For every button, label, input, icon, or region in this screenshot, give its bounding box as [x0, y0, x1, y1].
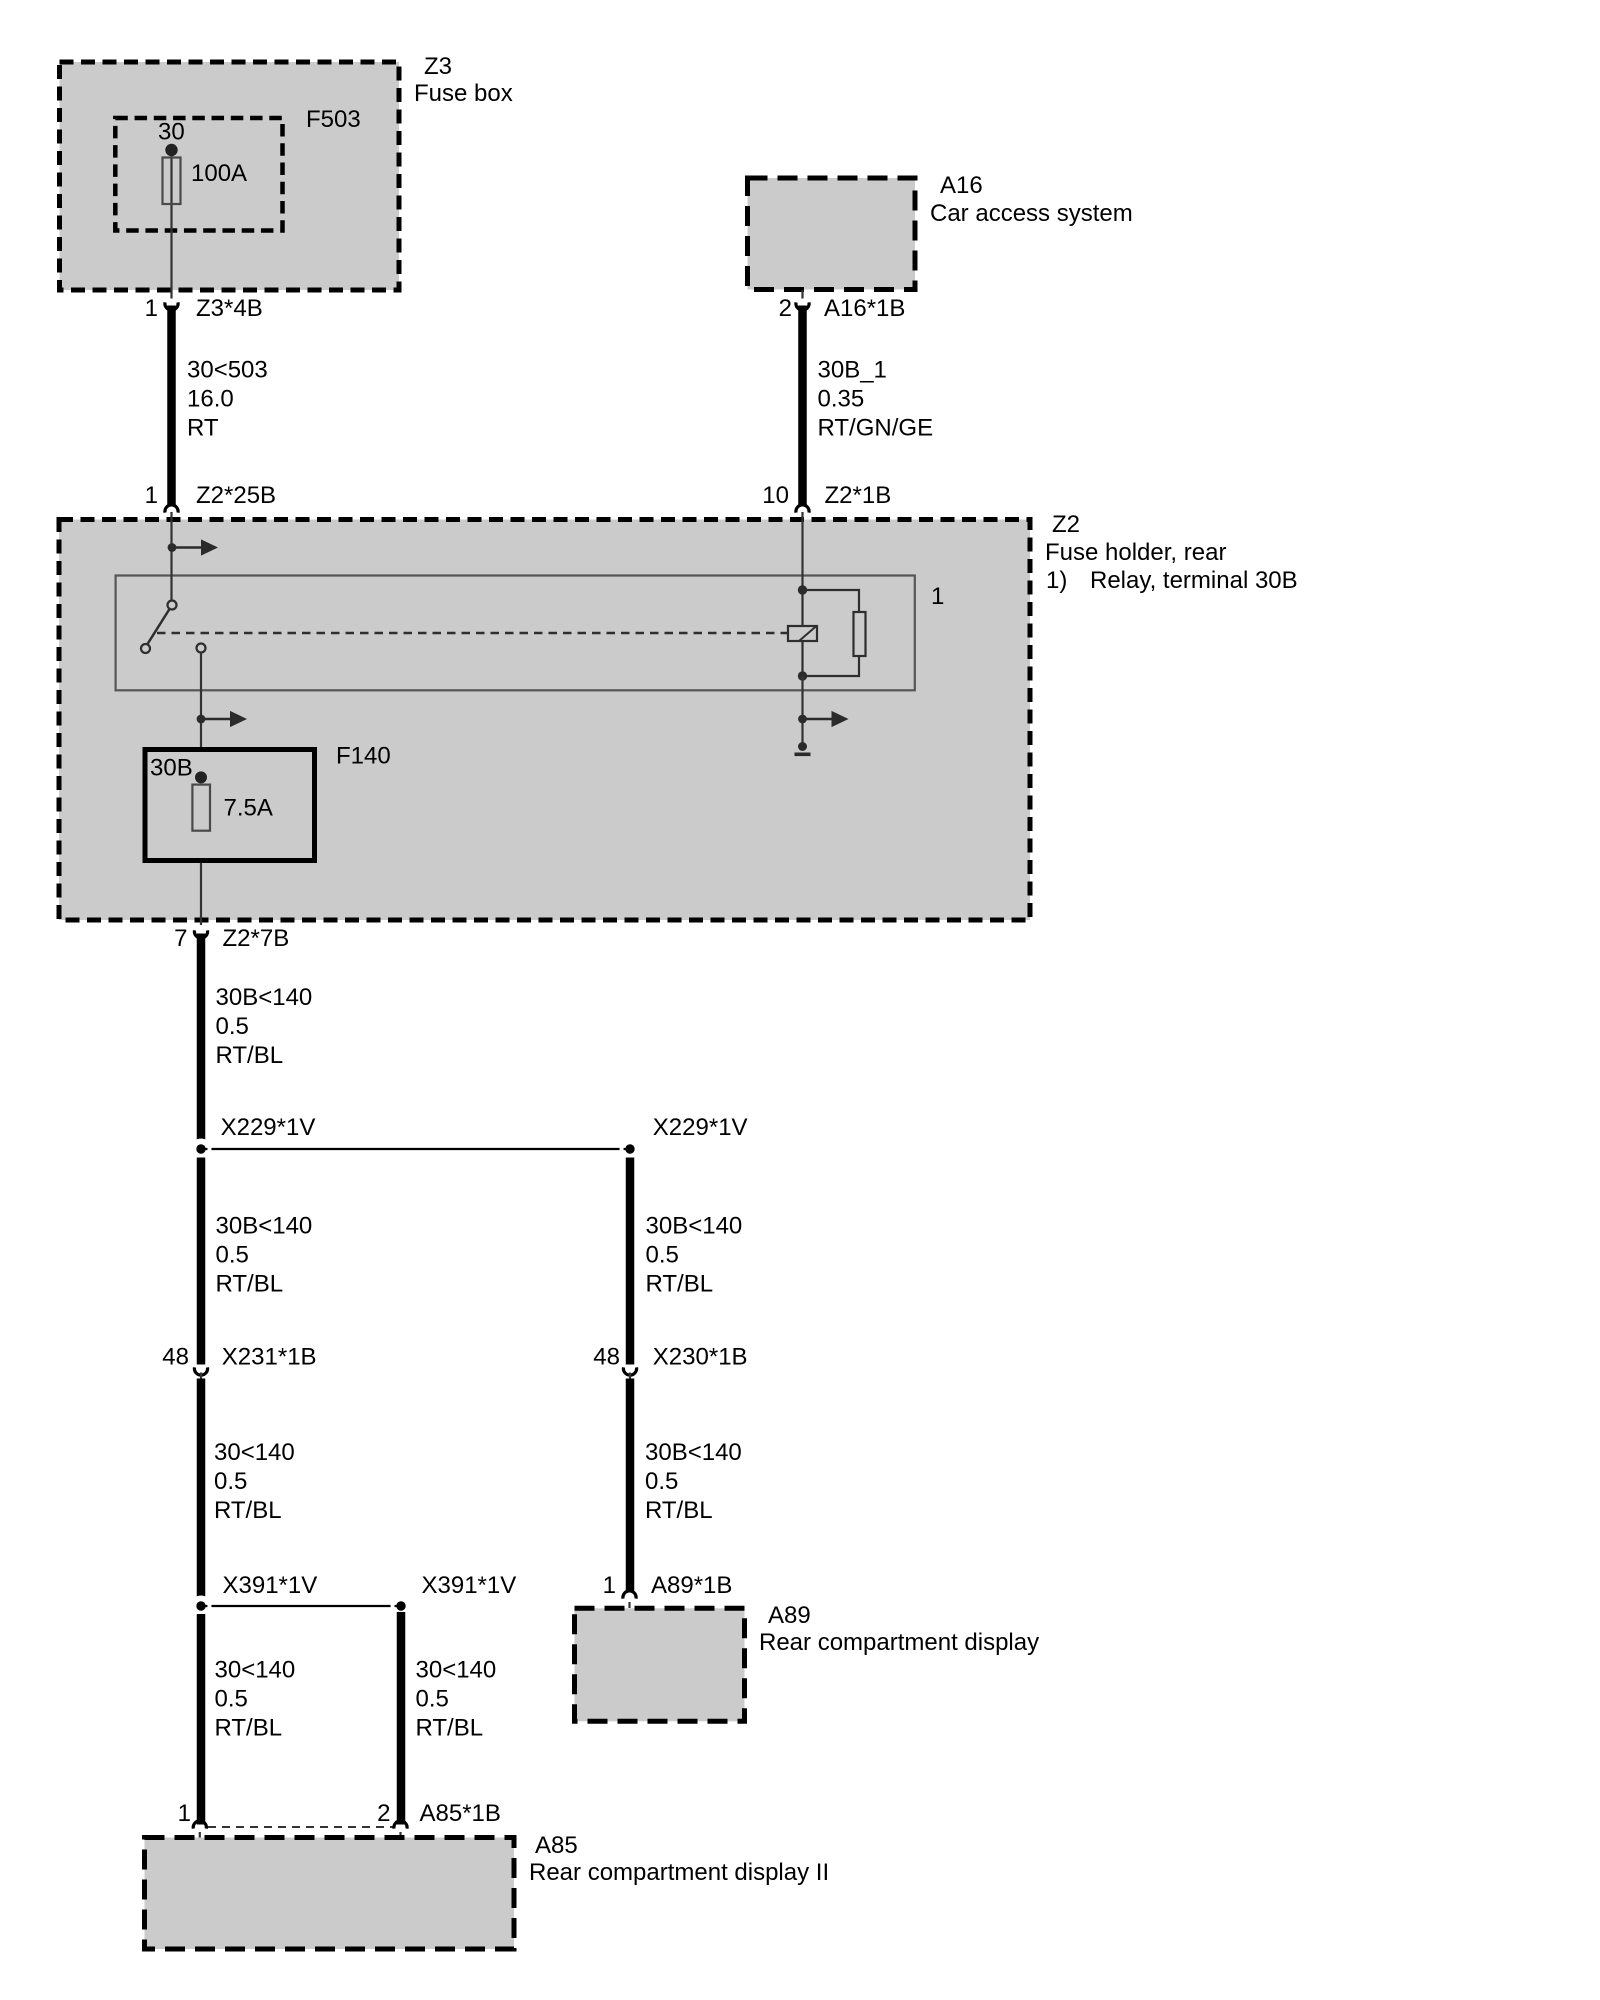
fuse element F503 100A [163, 158, 181, 205]
coil bottom node [798, 671, 807, 680]
svg-text:1: 1 [178, 1800, 191, 1827]
svg-text:X229*1V: X229*1V [221, 1114, 316, 1141]
connector A85*1B pin 1 [178, 1800, 207, 1838]
svg-text:30<503: 30<503 [187, 357, 268, 384]
svg-text:X229*1V: X229*1V [653, 1114, 748, 1141]
svg-text:2: 2 [779, 295, 792, 322]
svg-text:RT/BL: RT/BL [646, 1271, 714, 1298]
svg-text:0.5: 0.5 [216, 1242, 249, 1269]
svg-text:30B<140: 30B<140 [216, 1213, 313, 1240]
svg-text:0.5: 0.5 [416, 1686, 449, 1713]
svg-text:RT/BL: RT/BL [215, 1715, 283, 1742]
svg-text:30B<140: 30B<140 [216, 984, 313, 1011]
connector Z2*25B pin 1 [145, 482, 276, 513]
connector Z2*1B pin 10 [762, 482, 891, 513]
svg-text:RT/BL: RT/BL [214, 1497, 282, 1524]
junction X391*1V left [193, 1572, 402, 1615]
svg-text:10: 10 [762, 482, 789, 509]
connector A85*1B pin 2 [377, 1800, 501, 1838]
svg-text:Rear compartment display II: Rear compartment display II [529, 1859, 829, 1886]
wire switch to F140 [200, 653, 202, 926]
svg-text:X230*1B: X230*1B [653, 1344, 748, 1371]
svg-text:30<140: 30<140 [214, 1439, 295, 1466]
svg-text:A16*1B: A16*1B [824, 295, 905, 322]
svg-text:Relay, terminal 30B: Relay, terminal 30B [1090, 567, 1298, 594]
svg-text:RT/BL: RT/BL [645, 1497, 713, 1524]
wire 30&lt;140 0.5 RT/BL left [201, 1379, 295, 1599]
ground [795, 742, 811, 756]
svg-text:2: 2 [377, 1800, 390, 1827]
connector X230*1B pin 48 [593, 1344, 747, 1379]
wire 30B&lt;140 0.5 RT/BL [201, 934, 312, 1141]
pin line from Z2*25B into relay [170, 512, 172, 601]
svg-text:1: 1 [145, 295, 158, 322]
wire 30B&lt;140 0.5 RT/BL to A89 [630, 1379, 742, 1591]
svg-text:1: 1 [931, 583, 944, 610]
svg-text:Z3*4B: Z3*4B [196, 295, 263, 322]
connector housing dashed link A85 [208, 1826, 393, 1828]
svg-text:A16: A16 [940, 172, 983, 199]
svg-text:A85: A85 [535, 1832, 578, 1859]
svg-text:30<140: 30<140 [416, 1657, 497, 1684]
wire 30&lt;503 16.0 RT [172, 306, 268, 506]
svg-text:X391*1V: X391*1V [223, 1572, 318, 1599]
connector X231*1B pin 48 [162, 1344, 316, 1379]
svg-text:RT/GN/GE: RT/GN/GE [818, 415, 934, 442]
junction node with arrow [168, 539, 218, 555]
junction node with arrow [798, 711, 848, 727]
svg-text:0.5: 0.5 [645, 1468, 678, 1495]
rear compartment display II A85 [145, 1832, 830, 1949]
relay switch [141, 601, 206, 654]
svg-text:7.5A: 7.5A [224, 795, 273, 822]
junction node with arrow [197, 711, 247, 727]
connector A89*1B pin 1 [603, 1572, 733, 1608]
fuse element F140 7.5A [192, 785, 210, 831]
wire coil to ground [801, 676, 803, 747]
svg-text:Z2: Z2 [1052, 511, 1080, 538]
svg-text:RT/BL: RT/BL [216, 1271, 284, 1298]
pin line from Z2*1B to coil [801, 512, 803, 590]
svg-text:Z2*7B: Z2*7B [223, 925, 290, 952]
svg-text:30B<140: 30B<140 [646, 1213, 743, 1240]
wire inside Z3 [170, 150, 172, 292]
svg-text:A89: A89 [768, 1602, 811, 1629]
svg-text:Z2*1B: Z2*1B [825, 482, 892, 509]
svg-text:30B: 30B [150, 755, 193, 782]
svg-text:F140: F140 [336, 743, 391, 770]
coil parallel resistor [803, 590, 866, 676]
svg-text:RT: RT [187, 415, 219, 442]
dashed actuation line [157, 632, 788, 634]
junction X229*1V left [193, 1114, 631, 1158]
svg-text:1: 1 [145, 482, 158, 509]
svg-text:30<140: 30<140 [215, 1657, 296, 1684]
svg-text:0.5: 0.5 [214, 1468, 247, 1495]
svg-text:Car access system: Car access system [930, 200, 1133, 227]
svg-text:Z3: Z3 [424, 53, 452, 80]
svg-text:X231*1B: X231*1B [222, 1344, 317, 1371]
wire 30&lt;140 0.5 RT/BL to A85 pin 2 [401, 1612, 496, 1825]
svg-text:0.5: 0.5 [646, 1242, 679, 1269]
svg-text:1): 1) [1046, 567, 1067, 594]
svg-text:0.35: 0.35 [818, 386, 865, 413]
svg-text:Fuse holder, rear: Fuse holder, rear [1045, 539, 1226, 566]
svg-text:A85*1B: A85*1B [420, 1800, 501, 1827]
wire 30B&lt;140 0.5 RT/BL right [630, 1158, 742, 1365]
rear compartment display A89 [575, 1602, 1040, 1721]
wire 30B_1 0.35 RT/GN/GE [803, 306, 934, 506]
svg-text:7: 7 [174, 925, 187, 952]
svg-text:RT/BL: RT/BL [216, 1042, 284, 1069]
svg-text:0.5: 0.5 [216, 1013, 249, 1040]
connector Z3*4B pin 1 [145, 292, 263, 322]
svg-text:48: 48 [162, 1344, 189, 1371]
junction X229*1V right [622, 1114, 748, 1158]
node 30B terminal dot [195, 771, 207, 783]
svg-text:48: 48 [593, 1344, 620, 1371]
svg-text:Rear compartment display: Rear compartment display [759, 1629, 1039, 1656]
fuse F140 [145, 743, 391, 861]
wire 30&lt;140 0.5 RT/BL to A85 pin 1 [201, 1614, 295, 1825]
svg-text:X391*1V: X391*1V [422, 1572, 517, 1599]
svg-text:F503: F503 [306, 106, 361, 133]
connector A16*1B pin 2 [779, 290, 906, 322]
fuse holder rear Z2 [59, 511, 1298, 920]
coil top node [798, 585, 807, 594]
svg-text:RT/BL: RT/BL [416, 1715, 484, 1742]
svg-text:Fuse box: Fuse box [414, 80, 513, 107]
svg-text:0.5: 0.5 [215, 1686, 248, 1713]
svg-text:100A: 100A [191, 160, 247, 187]
svg-text:30: 30 [158, 119, 185, 146]
fuse box Z3 [60, 53, 513, 290]
connector Z2*7B pin 7 [174, 925, 289, 952]
node 30 terminal dot [165, 144, 177, 156]
svg-text:1: 1 [603, 1572, 616, 1599]
wire 30B&lt;140 0.5 RT/BL left [201, 1158, 312, 1365]
relay U1 box [116, 576, 945, 691]
relay coil [788, 590, 817, 676]
fuse F503 [115, 106, 360, 231]
car access system A16 [748, 172, 1133, 290]
svg-text:Z2*25B: Z2*25B [196, 482, 276, 509]
svg-text:30B<140: 30B<140 [645, 1439, 742, 1466]
junction X391*1V right [393, 1572, 517, 1615]
svg-text:16.0: 16.0 [187, 386, 234, 413]
svg-text:A89*1B: A89*1B [651, 1572, 732, 1599]
svg-text:30B_1: 30B_1 [818, 357, 887, 384]
